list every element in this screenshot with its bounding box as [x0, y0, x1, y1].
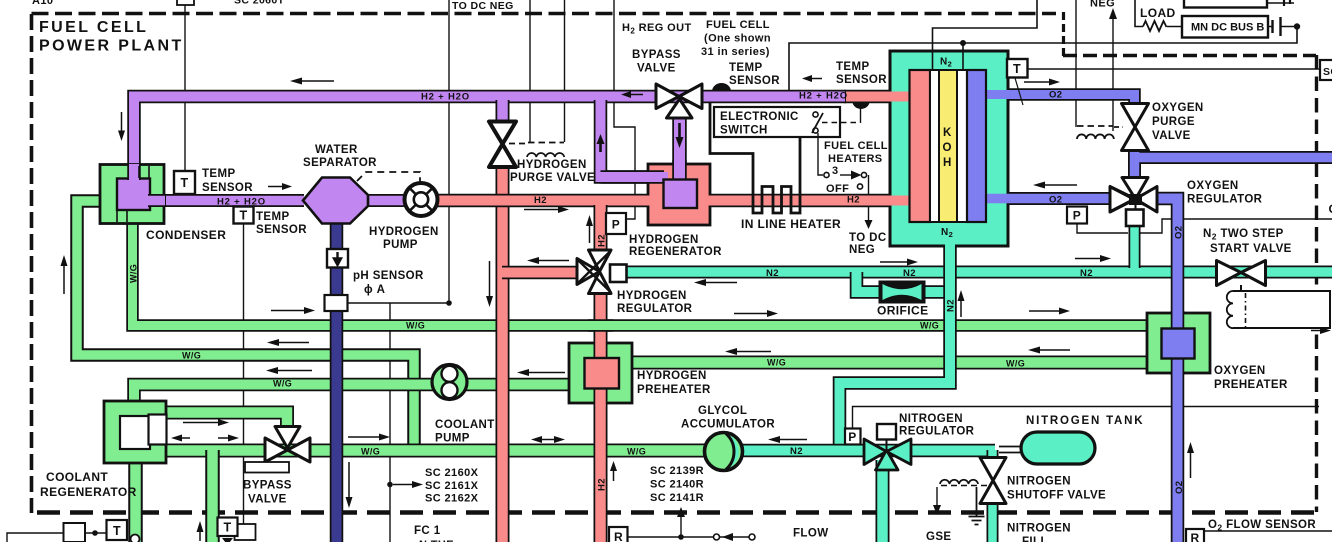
wire T box to SC box at right edge [1028, 68, 1322, 70]
flow arrow right above N2 line (center) [880, 261, 907, 263]
flow arrow right on H2 main line [524, 209, 558, 211]
svg-text:TEMP: TEMP [256, 211, 290, 223]
svg-text:LOAD: LOAD [1140, 6, 1176, 20]
svg-text:FILL: FILL [1022, 536, 1048, 542]
svg-text:GSE: GSE [926, 531, 952, 542]
temp sensor bulb under pipe (right) [853, 102, 870, 110]
wire fuel cell bus: electrode 2 horizontal run [789, 27, 1297, 90]
wire oxygen purge solenoid lead going to top [1075, 0, 1077, 127]
pipe W/G line L2-right: hydrogen preheater to oxygen preheater [630, 356, 1148, 370]
svg-text:VALVE: VALVE [1152, 130, 1191, 142]
svg-text:H2 + H2O: H2 + H2O [421, 92, 470, 103]
mechanical link dashes separator to pump [357, 172, 420, 182]
svg-text:N2: N2 [1080, 268, 1093, 279]
pipe H2 branch down to hydrogen regulator [594, 205, 608, 252]
bottom left sensor chain wire [7, 533, 107, 542]
letter T in sensor boxes [113, 62, 1021, 538]
svg-text:SC 2139R: SC 2139R [650, 465, 704, 477]
T box bottom left [107, 520, 128, 540]
svg-text:HYDROGEN: HYDROGEN [617, 290, 687, 302]
svg-text:SWITCH: SWITCH [720, 125, 768, 137]
pipe H2+H2O from bypass valve down into regenerator core [672, 112, 687, 184]
condenser purple outlet through right wall [148, 194, 166, 207]
svg-text:W/G: W/G [182, 351, 201, 361]
pipe W/G branch down from L5 to bottom edge [205, 450, 220, 542]
pipe H2O drain from water separator down to bottom edge [330, 220, 344, 542]
ground symbol below shutoff solenoid [969, 487, 985, 525]
letter P in sensor boxes [612, 209, 1081, 445]
valve oxygen purge (vertical bowtie) [1122, 104, 1149, 151]
pipe N2 from fuel cell bottom down, jog left, down to nitrogen line [840, 240, 951, 451]
svg-text:(One shown: (One shown [704, 33, 771, 45]
svg-text:ϕ A: ϕ A [364, 284, 385, 296]
svg-text:H2 + H2O: H2 + H2O [217, 197, 266, 208]
flow arrow down into condenser [121, 112, 123, 132]
svg-text:PURGE: PURGE [1152, 116, 1195, 128]
flow arrow down in bypass-regenerator purple leg [678, 123, 681, 138]
svg-text:START VALVE: START VALVE [1210, 243, 1292, 255]
flow arrow right above W/G L1 right [1029, 310, 1059, 312]
wire heater contact down to in-line heater [868, 175, 870, 194]
condenser notch lines [117, 166, 149, 222]
svg-text:NEG: NEG [1090, 0, 1115, 10]
wire electronic switch to heater contact [818, 133, 823, 175]
pipe H2+H2O red section into fuel cell top [844, 90, 920, 104]
valve N2 two-step start (horizontal bowtie) [1217, 261, 1266, 286]
white box at end of that wire [235, 524, 256, 540]
flow arrow left below N2 line [704, 282, 737, 284]
dashed module border left [30, 14, 34, 513]
valve hydrogen regulator (3-way + actuator box) [577, 259, 600, 285]
fuel cell H2 inlet stubs through wall [886, 92, 912, 102]
svg-text:W/G: W/G [406, 321, 425, 331]
P box oxygen pressure sensor [1067, 207, 1087, 224]
flow arrow left above regulator stub [537, 260, 569, 262]
svg-text:FUEL CELL: FUEL CELL [824, 140, 888, 152]
svg-text:TO DC: TO DC [849, 232, 887, 244]
node dot at battery junction [1294, 23, 1300, 29]
svg-text:HYDROGEN: HYDROGEN [637, 370, 707, 382]
dashed border right side [1315, 55, 1318, 512]
fuel cell O2 stubs through wall [986, 90, 1010, 99]
svg-text:FUEL CELL: FUEL CELL [706, 19, 770, 31]
wire P box oxygen to regulator actuator [1077, 223, 1128, 233]
dashed border top right section [1063, 54, 1316, 57]
hydrogen regenerator H2 pass-through [646, 196, 712, 206]
glycol accumulator bladder arc [726, 434, 734, 470]
wire fuel cell electrode 1 to top edge [933, 0, 1038, 71]
svg-text:SENSOR: SENSOR [836, 74, 887, 86]
svg-text:C: C [1329, 202, 1332, 216]
wire pH sensor branch down to SC numbers and bottom edge [389, 303, 391, 542]
P box nitrogen pressure sensor [845, 429, 861, 445]
svg-text:REGENERATOR: REGENERATOR [629, 246, 722, 258]
svg-text:H2: H2 [597, 234, 608, 247]
svg-text:R: R [614, 530, 623, 542]
pipe O2 from fuel cell to oxygen regulator left [988, 192, 1112, 205]
flow arrow left above W/G L2 left [277, 342, 309, 344]
svg-text:O2: O2 [1049, 195, 1062, 206]
svg-text:PUMP: PUMP [383, 239, 418, 251]
wire oxygen actuator to right edge [1140, 219, 1332, 233]
pipe W/G coolant loop: condenser left stub, left vertical, L2-left, down-leg to L5 [77, 201, 414, 450]
pipe O2 from fuel cell top right to oxygen purge valve [988, 95, 1135, 105]
svg-text:N2: N2 [766, 268, 779, 279]
oxygen preheater O2 pipe through [1171, 311, 1185, 375]
svg-text:BYPASS: BYPASS [243, 480, 292, 492]
pipe H2+H2O main line across top with drop to condenser [134, 97, 846, 177]
condenser purple inlet through top wall [127, 165, 141, 180]
svg-text:REGULATOR: REGULATOR [1187, 194, 1263, 206]
hydrogen regenerator purple core [601, 170, 665, 184]
small circle on coolant leg at bottom edge [131, 535, 140, 542]
svg-text:ACCUMULATOR: ACCUMULATOR [681, 419, 775, 431]
svg-text:FC 1: FC 1 [414, 525, 441, 537]
flow arrow left above W/G L2 mid [735, 351, 771, 353]
svg-text:T: T [180, 176, 188, 190]
solenoid coil for nitrogen shutoff valve [940, 480, 978, 484]
pipe W/G line L1: condenser bottom stub then long horizontal to oxygen preheater [133, 222, 1149, 326]
coolant regenerator element white box [149, 415, 167, 445]
svg-text:A10: A10 [32, 0, 53, 7]
flow arrow down beside purge vent line [489, 261, 491, 297]
condenser body [100, 165, 164, 224]
R box oxygen flow sensor and line [1186, 529, 1204, 542]
svg-text:W/G: W/G [1006, 359, 1025, 369]
valve bypass (3-way on H2+H2O line) [656, 84, 702, 109]
wire from second temp sensor box down to lower module [243, 223, 245, 525]
svg-text:pH SENSOR: pH SENSOR [353, 270, 424, 282]
svg-text:HYDROGEN: HYDROGEN [517, 159, 587, 171]
svg-text:GLYCOL: GLYCOL [698, 405, 747, 417]
svg-text:O2: O2 [1174, 226, 1185, 239]
pipe W/G line L3: coolant regenerator top leg up then right through coolant pump to hydrogen preheater [134, 385, 571, 404]
flow arrow right inside coolant regenerator [218, 437, 228, 439]
flow arrow left above temp sensor (fuel cell) [810, 78, 822, 80]
svg-text:O2: O2 [1174, 481, 1185, 494]
flow arrow left inside coolant regenerator [180, 437, 190, 439]
coolant regenerator body [104, 401, 166, 463]
coolant bypass valve actuator outline box [245, 462, 289, 473]
flow arrow left above N2 accumulator line [778, 439, 807, 441]
flow arrow up beside fuel cell N2 drop [960, 300, 962, 317]
solenoid coil for oxygen purge valve [1114, 126, 1123, 128]
svg-text:31 in series): 31 in series) [701, 46, 770, 58]
fuel cell KOH electrolyte slab [939, 70, 957, 222]
LOAD resistor and riser [1135, 0, 1182, 27]
pipe O2 from purge valve bottom: elbow to right edge and down to oxygen regulator [1135, 150, 1332, 179]
svg-text:IN LINE HEATER: IN LINE HEATER [741, 217, 841, 231]
svg-text:TEMP: TEMP [729, 62, 763, 74]
glycol accumulator body [705, 433, 743, 471]
heater selector contacts [824, 172, 829, 177]
svg-text:P: P [848, 430, 856, 444]
svg-text:H2: H2 [597, 478, 608, 491]
svg-text:MN DC BUS B: MN DC BUS B [1191, 22, 1264, 34]
pipe O2 from oxygen regulator right, down through oxygen preheater to bottom edge [1155, 199, 1178, 542]
solenoid coil for hydrogen purge valve [509, 143, 527, 145]
hydrogen preheater body [569, 343, 632, 403]
flow arrow up beside H2 regulator riser [589, 225, 591, 243]
svg-text:R: R [1190, 531, 1199, 542]
node dot electrode 2 junction [960, 40, 966, 46]
start valve actuator box with coil and dash-dot stem [1240, 285, 1242, 291]
svg-text:VALVE: VALVE [637, 63, 676, 75]
oxygen preheater body [1147, 313, 1210, 373]
wire fuel cell electrode 2 and main bus wire [962, 43, 964, 71]
pipe N2 main line from hydrogen regulator box to right edge [624, 266, 1332, 279]
svg-text:H2: H2 [534, 195, 547, 206]
svg-text:HEATERS: HEATERS [828, 153, 883, 165]
svg-text:OFF: OFF [826, 183, 849, 195]
coolant pump body [432, 365, 467, 400]
svg-text:TEMP: TEMP [202, 168, 236, 180]
wire telemetry riser to condenser temp sensor [184, 0, 186, 172]
T box condenser outlet temp sensor [174, 171, 195, 194]
svg-text:NITROGEN: NITROGEN [899, 413, 963, 425]
svg-text:WATER: WATER [315, 144, 358, 156]
flow arrow right on L4 bypass branch [183, 422, 218, 424]
pipe H2 stub from purge line to hydrogen regulator left side [502, 266, 579, 280]
arrowhead oxygen purge solenoid to DC NEG [1109, 8, 1117, 19]
pipe H2+H2O branch down to hydrogen regenerator (left leg) [601, 100, 659, 177]
flow arrow right above O2 line top [1024, 81, 1049, 83]
flow arrow right above W/G L1 left [271, 310, 304, 312]
wire GSE pointer from shutoff solenoid [936, 487, 938, 506]
svg-text:SC 2141R: SC 2141R [650, 492, 704, 504]
svg-text:W/G: W/G [361, 447, 380, 457]
svg-text:P: P [612, 218, 620, 232]
SC box at right edge [1320, 60, 1332, 80]
flow arrow left above W/G L2 right [1038, 349, 1070, 351]
electronic switch box [714, 107, 840, 137]
flow arrow left on pipe before bypass valve [629, 94, 643, 96]
svg-text:3: 3 [832, 165, 839, 177]
oxygen preheater blue core [1162, 329, 1195, 359]
flow arrow right below start valve box [1311, 330, 1320, 332]
wire telemetry R box hydrogen flow with selector [627, 516, 750, 537]
pipe N2 line from glycol accumulator through nitrogen regulator to shutoff junction [740, 444, 995, 458]
svg-text:PURGE VALVE: PURGE VALVE [510, 172, 595, 184]
valve coolant bypass (3-way) [265, 438, 310, 462]
svg-text:O2: O2 [1049, 90, 1062, 101]
fuel cell electrode plate white left [930, 70, 939, 222]
svg-text:VALVE: VALVE [248, 494, 287, 506]
pipe W/G coolant regenerator bottom leg to bottom edge [128, 462, 143, 542]
svg-text:PUMP: PUMP [435, 433, 470, 445]
flow arrow left above W/G L3 at pump [527, 372, 565, 374]
node dot bottom left chain [92, 530, 98, 536]
svg-text:W/G: W/G [767, 358, 786, 368]
T box on coolant branch at bottom [218, 518, 238, 537]
flow arrow left on H2+H2O pipe top left [300, 80, 334, 82]
P box hydrogen pressure sensor [606, 213, 626, 234]
svg-text:T: T [239, 209, 247, 223]
dashed border step down at x=1063 [1062, 12, 1065, 57]
pipe H2 from hydrogen regulator down through hydrogen preheater to bottom edge [594, 291, 608, 542]
hydrogen preheater H2 pipe through [594, 341, 608, 405]
letter R in sensor boxes [614, 530, 1200, 542]
svg-text:N2: N2 [903, 268, 916, 279]
R box hydrogen flow sensor [609, 527, 628, 542]
MN DC BUS B box [1182, 16, 1268, 38]
node junction dot pH riser [446, 300, 452, 306]
svg-text:W/G: W/G [920, 321, 939, 331]
svg-text:T: T [113, 524, 121, 538]
svg-text:HYDROGEN: HYDROGEN [629, 234, 699, 246]
svg-text:NITROGEN: NITROGEN [1007, 523, 1071, 535]
battery symbol MN DC BUS B [1268, 26, 1294, 28]
svg-text:OXYGEN: OXYGEN [1152, 102, 1204, 114]
hydrogen regenerator body [648, 164, 710, 225]
svg-text:ELECTRONIC: ELECTRONIC [720, 111, 799, 123]
double flow arrow above W/G L5 at pump [540, 439, 556, 441]
svg-text:REGULATOR: REGULATOR [899, 426, 975, 438]
nitrogen tank fill stub lines [999, 447, 1022, 453]
pipe H2 purge vent line from hydrogen purge valve to bottom edge [496, 165, 510, 542]
T box fuel cell oxygen temp sensor [1007, 59, 1028, 78]
pipe H2+H2O branch down to hydrogen purge valve [496, 100, 510, 122]
fuel cell outer body [890, 51, 1008, 246]
wire pH sensor line to telemetry riser [348, 0, 449, 303]
flow arrow up beside coolant branch at bottom [199, 531, 201, 541]
flow arrow up on H2 line below preheater [613, 470, 615, 481]
pipe W/G line L4: coolant regenerator top-right to coolant bypass valve [150, 413, 287, 431]
wire H2-reg-out pressure sensor riser [614, 0, 635, 219]
svg-text:SC 2140R: SC 2140R [650, 479, 704, 491]
flow arrow right above N2 line (right) [1075, 258, 1100, 260]
svg-text:OXYGEN: OXYGEN [1187, 180, 1239, 192]
orifice body [880, 282, 925, 303]
flow arrow left above W/G L3 left [276, 370, 312, 372]
svg-text:SHUTOFF VALVE: SHUTOFF VALVE [1007, 490, 1106, 502]
svg-text:FUEL CELL: FUEL CELL [39, 19, 148, 36]
water separator body [303, 178, 368, 224]
svg-text:P: P [1073, 209, 1081, 223]
svg-text:SC 2060T: SC 2060T [234, 0, 285, 7]
flow arrow right at condenser outlet [268, 186, 283, 188]
coolant regenerator white cavity [120, 416, 150, 449]
battery symbol MN DC BUS A partial [1267, 2, 1294, 4]
condenser inner purple core [117, 179, 150, 211]
wire solenoid leads of hydrogen purge valve [530, 0, 565, 142]
pH sensor box with down arrow on drain line [327, 249, 348, 268]
svg-text:HYDROGEN: HYDROGEN [369, 226, 439, 238]
small arrow below bottom T box [222, 538, 233, 542]
small box at top edge [177, 0, 194, 5]
flow arrow down beside drain line bottom [348, 462, 350, 498]
W/G L1 line re-drawn over red pipe crossing [588, 319, 613, 332]
fuel cell N2 stub through bottom wall [945, 238, 955, 250]
svg-text:NITROGEN: NITROGEN [1007, 476, 1071, 488]
svg-text:SENSOR: SENSOR [729, 75, 780, 87]
svg-text:REGENERATOR: REGENERATOR [40, 485, 137, 499]
svg-text:N2: N2 [790, 446, 803, 457]
svg-text:SC 2160X: SC 2160X [425, 467, 479, 479]
pointer arrow to SC 2161X [393, 484, 412, 486]
svg-text:REGULATOR: REGULATOR [617, 303, 693, 315]
valve oxygen regulator (3-way + actuator box) [1110, 187, 1136, 213]
svg-text:SC 2161X: SC 2161X [425, 480, 479, 492]
svg-text:O2 FLOW SENSOR: O2 FLOW SENSOR [1208, 519, 1316, 533]
svg-text:W/G: W/G [129, 264, 139, 283]
pipe H2+H2O water separator to hydrogen pump [364, 194, 410, 207]
svg-text:ORIFICE: ORIFICE [877, 304, 928, 318]
svg-text:PREHEATER: PREHEATER [637, 384, 711, 396]
dashed module border top [32, 12, 1057, 16]
svg-text:OXYGEN: OXYGEN [1214, 365, 1266, 377]
svg-text:NITROGEN TANK: NITROGEN TANK [1026, 415, 1144, 427]
orifice venturi [883, 284, 922, 300]
wire oxygen purge solenoid to DC NEG [1112, 18, 1114, 131]
hydrogen pump body [405, 183, 438, 216]
in-line heater element [710, 102, 800, 213]
flow arrow right above W/G L1 mid [734, 313, 767, 315]
switch contacts inside electronic switch [813, 112, 818, 117]
svg-text:SC: SC [1323, 66, 1332, 78]
pipe H2 main line from hydrogen pump through regenerator and in-line heater to fuel cell [436, 194, 920, 208]
svg-text:H2 + H2O: H2 + H2O [799, 91, 848, 102]
svg-text:K: K [943, 127, 952, 139]
flow arrow up in regenerator purple leg [599, 143, 602, 152]
svg-text:O: O [943, 142, 952, 154]
glycol accumulator N2 side crescent [726, 434, 739, 470]
flow arrow right above W/G L5 [348, 436, 379, 438]
svg-text:POWER PLANT: POWER PLANT [39, 38, 184, 55]
svg-text:NEG: NEG [849, 244, 875, 256]
svg-text:PREHEATER: PREHEATER [1214, 379, 1288, 391]
sample box on drain line [325, 295, 348, 311]
pipe W/G line L5: coolant regenerator right side through bypass valve to glycol accumulator [166, 444, 710, 458]
svg-text:CONDENSER: CONDENSER [146, 228, 226, 242]
svg-text:SEPARATOR: SEPARATOR [303, 157, 377, 169]
pipe N2 nitrogen regulator bottom stub to bottom edge [876, 460, 890, 542]
fuel cell hydrogen electrode slab [910, 70, 931, 222]
svg-text:H: H [943, 157, 952, 169]
svg-text:SENSOR: SENSOR [202, 182, 253, 194]
dashed border bottom [33, 510, 1314, 515]
pipe H2+H2O condenser outlet to water separator [148, 194, 304, 207]
svg-text:FLOW: FLOW [793, 528, 828, 540]
svg-text:TEMP: TEMP [836, 61, 870, 73]
svg-text:T: T [1013, 62, 1021, 76]
svg-text:TO DC NEG: TO DC NEG [452, 0, 514, 12]
MN DC BUS A box partial at top edge [1184, 0, 1267, 8]
flow arrow up beside O2 line at bottom [1190, 452, 1192, 478]
svg-text:SC 2162X: SC 2162X [425, 493, 479, 505]
valve nitrogen shutoff (vertical bowtie) [980, 458, 1006, 504]
svg-text:COOLANT: COOLANT [435, 419, 495, 431]
svg-text:W/G: W/G [627, 447, 646, 457]
node dot on SC pointer [387, 482, 393, 488]
svg-text:H2: H2 [847, 195, 860, 206]
T box condenser second temp sensor [234, 207, 254, 224]
wire sensor bulb to electronic switch [860, 107, 862, 123]
fuel cell electrode plate white right [957, 70, 967, 222]
valve nitrogen regulator (teal 3-way + top box) [864, 439, 911, 465]
white box bottom left [64, 523, 86, 542]
wire heater return to DC NEG with arrow [868, 207, 870, 221]
pipe N2 branch down to nitrogen shutoff valve and nitrogen fill at bottom [987, 450, 999, 542]
nitrogen tank capsule [1021, 432, 1095, 464]
valve hydrogen purge (vertical bowtie) [489, 122, 516, 168]
svg-text:T: T [223, 521, 231, 535]
flow arrow left above O2 regulator line [1043, 184, 1077, 186]
fuel cell oxygen electrode slab [967, 70, 986, 222]
pipe N2 sense line from oxygen regulator actuator box down to N2 main [1129, 225, 1141, 268]
svg-text:COOLANT: COOLANT [46, 470, 108, 484]
svg-text:W/G: W/G [273, 379, 292, 389]
